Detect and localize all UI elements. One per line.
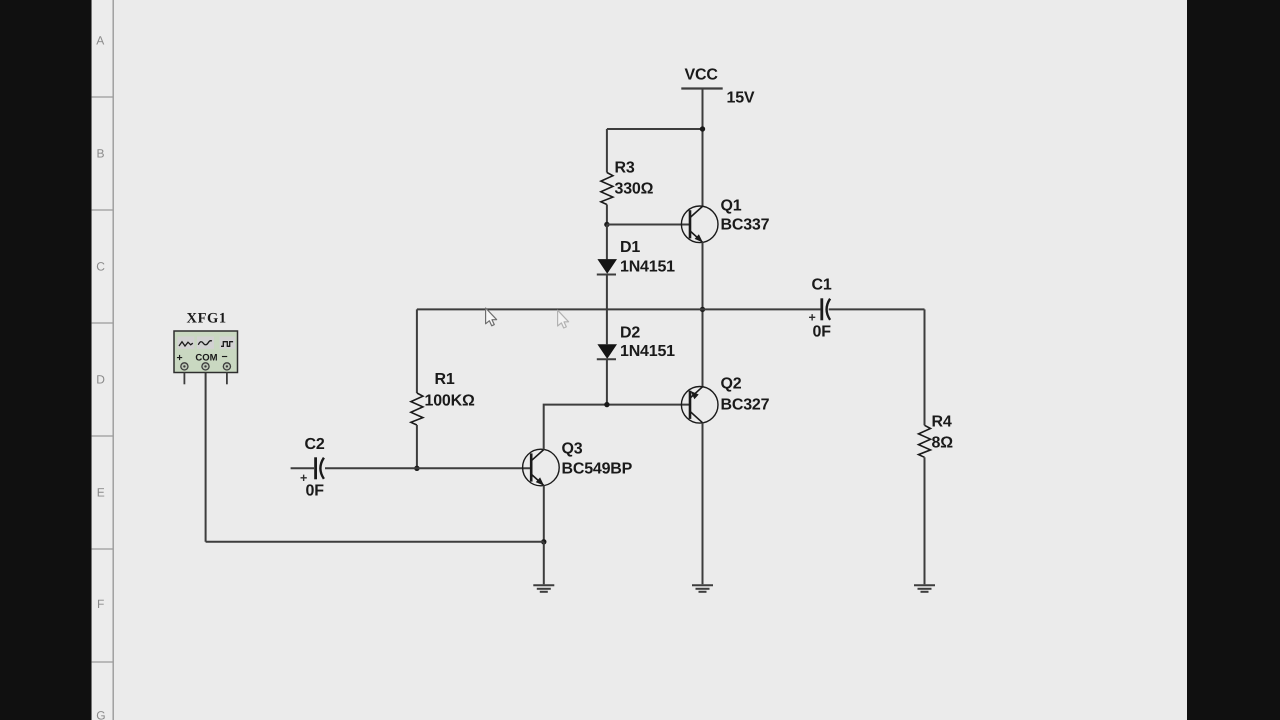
svg-text:XFG1: XFG1	[187, 311, 227, 327]
wire D1 cathode to D2 anode	[606, 275, 608, 345]
capacitor C2	[291, 457, 324, 485]
node junction output rail	[700, 307, 705, 312]
svg-text:E: E	[97, 486, 105, 500]
svg-text:D: D	[96, 373, 105, 387]
wire D2 cathode to Q2 base node	[606, 359, 608, 404]
ground under R4	[914, 585, 935, 592]
wire R1 bottom to input node	[416, 425, 418, 468]
svg-text:B: B	[97, 147, 105, 161]
VCC power symbol	[681, 67, 722, 89]
wire XFG1 minus terminal stub	[226, 373, 228, 385]
node junction R1/C2/Q3 base	[414, 466, 419, 471]
svg-text:1N4151: 1N4151	[620, 259, 675, 276]
wire C1 to R4 corner	[829, 308, 925, 310]
svg-text:F: F	[97, 597, 104, 611]
svg-text:Q1: Q1	[721, 198, 742, 215]
wire Q1 emitter to Q2 emitter	[702, 242, 704, 387]
svg-text:Q2: Q2	[721, 376, 742, 393]
wire top rail to R3	[607, 128, 703, 130]
wire bottom rail from XFG1 COM	[206, 541, 544, 543]
resistor R1	[411, 393, 423, 425]
svg-text:D2: D2	[620, 324, 640, 341]
wire Q2 collector to ground	[702, 423, 704, 585]
wire D1 anode lead	[606, 225, 608, 260]
wire C2 to Q3 base	[325, 467, 531, 469]
wire Q3 collector up and over to Q2 base	[544, 405, 690, 450]
wire XFG1 COM vertical	[205, 373, 207, 542]
svg-text:C: C	[96, 260, 105, 274]
cursor ghost 2	[558, 310, 569, 328]
node junction R3/Q1 base/D1	[604, 222, 609, 227]
svg-text:D1: D1	[620, 239, 640, 256]
wire R3 top lead	[606, 129, 608, 173]
svg-text:R4: R4	[932, 413, 952, 430]
svg-text:G: G	[96, 709, 105, 720]
wire output rail left of C1	[417, 308, 821, 310]
svg-text:15V: 15V	[727, 90, 755, 107]
wire R4 bottom to ground	[924, 457, 926, 584]
svg-text:0F: 0F	[813, 324, 832, 341]
node junction VCC/R3	[700, 126, 705, 131]
diode D2	[597, 344, 617, 359]
transistor Q2	[681, 387, 718, 424]
svg-text:BC327: BC327	[721, 397, 770, 414]
svg-text:0F: 0F	[306, 483, 325, 500]
svg-text:A: A	[96, 34, 104, 48]
svg-text:100KΩ: 100KΩ	[425, 393, 475, 410]
svg-text:+: +	[177, 352, 183, 364]
wire R3 bottom to node	[606, 205, 608, 225]
ruler column	[92, 0, 114, 720]
svg-text:330Ω: 330Ω	[615, 181, 654, 198]
right black panel	[1187, 0, 1280, 720]
svg-text:BC549BP: BC549BP	[562, 460, 633, 477]
ground under Q2	[692, 585, 713, 592]
svg-text:BC337: BC337	[721, 217, 770, 234]
wire R4 top lead	[924, 309, 926, 425]
transistor Q3	[523, 449, 560, 486]
node junction D2/Q2 base	[604, 402, 609, 407]
resistor R3	[601, 173, 613, 205]
function generator XFG1	[174, 331, 238, 373]
wire VCC vertical to Q1 collector	[702, 89, 704, 207]
svg-text:8Ω: 8Ω	[932, 435, 954, 452]
resistor R4	[919, 425, 931, 457]
svg-text:R1: R1	[435, 371, 455, 388]
cursor ghost 1	[486, 308, 497, 326]
wire XFG1 plus terminal stub	[183, 373, 185, 385]
svg-text:C2: C2	[305, 436, 325, 453]
ground under Q3	[533, 585, 554, 592]
diode D1	[597, 259, 617, 274]
wire Q1 base	[607, 224, 690, 226]
svg-text:R3: R3	[615, 160, 635, 177]
left black panel	[0, 0, 92, 720]
wire Q3 emitter down to bottom node	[543, 485, 545, 541]
wire R1 top lead	[416, 309, 418, 393]
wire bottom node to ground	[543, 542, 545, 585]
svg-text:−: −	[222, 351, 228, 363]
node junction Q3 emitter/ground	[541, 539, 546, 544]
svg-text:+: +	[809, 311, 816, 325]
svg-text:COM: COM	[195, 353, 217, 364]
capacitor C1	[809, 298, 831, 324]
transistor Q1	[681, 206, 718, 243]
svg-text:Q3: Q3	[562, 441, 583, 458]
svg-text:1N4151: 1N4151	[620, 343, 675, 360]
svg-text:VCC: VCC	[685, 67, 719, 84]
svg-text:C1: C1	[812, 277, 832, 294]
